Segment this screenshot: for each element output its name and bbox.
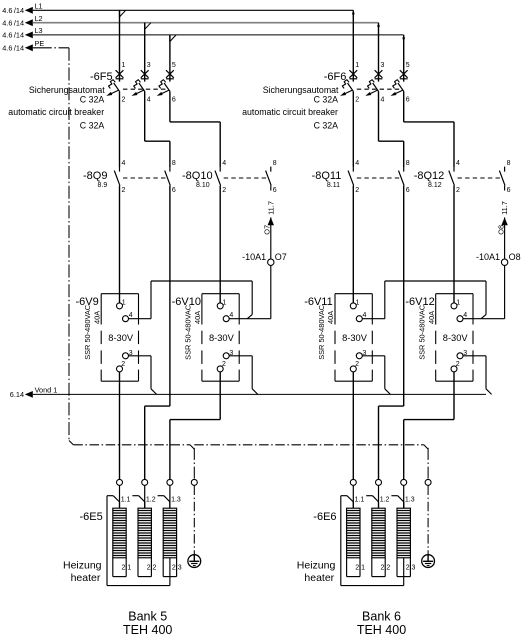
svg-text:8: 8 <box>406 160 410 167</box>
-6V10 pin 2 <box>217 361 226 372</box>
protective earth bus PE (dash-dot) <box>33 48 74 445</box>
svg-text:40A: 40A <box>92 311 101 324</box>
svg-text:4.6 /14: 4.6 /14 <box>2 19 24 28</box>
rotated label O7 <box>263 225 272 235</box>
wire breaker pole1 pin2 down to contact pin4 <box>352 98 354 167</box>
contactor -8Q11 second contact (pins 8-6) <box>399 160 410 194</box>
label -6F6 <box>324 71 347 83</box>
svg-text:2: 2 <box>121 361 125 368</box>
svg-text:-6E6: -6E6 <box>313 511 336 523</box>
heating element resistor 1 (hatched) <box>347 502 360 558</box>
svg-text:O7: O7 <box>275 252 287 262</box>
heating element 1 return legs (U) <box>113 558 126 577</box>
svg-text:C 32A: C 32A <box>314 121 339 131</box>
control common bus Vond 1 <box>33 393 486 395</box>
svg-text:TEH 400: TEH 400 <box>357 623 406 637</box>
cross-reference 8.10 <box>196 182 210 189</box>
wire SSR(right) pin2 down, jog left to heater terminal .3 <box>170 372 220 479</box>
contactor -8Q9 second contact (pins 8-6) <box>165 160 176 194</box>
wire O8 terminal down / left to SSR pin4 <box>463 266 505 319</box>
svg-text:2: 2 <box>456 361 460 368</box>
heater connection terminal 3 <box>167 479 173 485</box>
rotated label 11.7 <box>266 201 275 215</box>
svg-text:O7: O7 <box>263 225 272 235</box>
wire SSR(left) pin3 to control-common bus <box>129 356 157 395</box>
circuit breaker -6F5 pole 2 (pins 3-4) <box>132 23 151 104</box>
svg-text:TEH 400: TEH 400 <box>123 623 172 637</box>
-6V11 pin 3 <box>356 350 366 359</box>
svg-text:8: 8 <box>507 160 511 167</box>
wire SSR(left) pin2 down to heater terminal .1 <box>119 372 121 479</box>
wire contact pin2 down to SSR pin1 (phase L3 path) <box>453 186 455 303</box>
svg-text:4.6 /14: 4.6 /14 <box>2 44 24 53</box>
-6V11 pin 1 <box>350 300 359 309</box>
svg-text:8.12: 8.12 <box>428 182 442 189</box>
svg-text:-8Q11: -8Q11 <box>312 170 342 182</box>
svg-text:Bank 6: Bank 6 <box>362 610 401 624</box>
circuit breaker -6F6 pole 3 (pins 5-6) <box>391 35 410 104</box>
svg-text:8.9: 8.9 <box>98 182 108 189</box>
svg-text:6: 6 <box>406 187 410 194</box>
wire terminal down into heating element <box>119 486 121 509</box>
svg-text:SSR 50-480VAC: SSR 50-480VAC <box>184 304 193 360</box>
label -8Q9 <box>83 170 107 182</box>
PE wire terminal down to earth symbol (dash-dot) <box>427 486 429 555</box>
net label Vond 1 <box>35 386 58 395</box>
svg-text:Sicherungsautomat: Sicherungsautomat <box>29 85 105 95</box>
label Sicherungsautomat <box>263 85 339 95</box>
net label PE <box>35 39 45 48</box>
-6V9 pin 3 <box>123 350 133 359</box>
svg-text:Sicherungsautomat: Sicherungsautomat <box>263 85 339 95</box>
svg-text:-6E5: -6E5 <box>80 511 103 523</box>
power bus L1 <box>33 9 354 11</box>
svg-text:1: 1 <box>122 300 126 307</box>
-6V12 pin 3 <box>457 350 467 359</box>
svg-text:8: 8 <box>273 160 277 167</box>
cross-reference 8.12 <box>428 182 442 189</box>
svg-text:4: 4 <box>129 312 133 319</box>
device terminal circle -10A1 O7 <box>268 259 274 265</box>
label -8Q11 <box>312 170 342 182</box>
svg-text:1.1: 1.1 <box>121 497 131 504</box>
sheet cross-reference arrow 11.7 (up) on O7 line <box>268 217 274 225</box>
label heater <box>71 572 101 584</box>
-6V12 pin 2 <box>451 361 460 372</box>
svg-text:40A: 40A <box>427 311 436 324</box>
svg-text:1.2: 1.2 <box>146 497 156 504</box>
label Sicherungsautomat <box>29 85 105 95</box>
heater bank -6E6 enclosure outline <box>341 496 404 586</box>
terminal label 2.2 <box>147 565 157 572</box>
svg-text:2: 2 <box>222 361 226 368</box>
svg-text:6: 6 <box>172 96 176 103</box>
label Bank 5 <box>128 610 167 624</box>
solid state relay -6V12 (box) <box>436 294 473 382</box>
heating element 3 return legs (U) <box>397 558 410 577</box>
svg-text:6: 6 <box>172 187 176 194</box>
heater connection terminal 2 <box>376 479 382 485</box>
heating element 1 terminal label 1.1 <box>121 497 131 504</box>
svg-text:C 32A: C 32A <box>80 121 105 131</box>
control voltage label 8-30V <box>342 333 368 343</box>
svg-text:SSR 50-480VAC: SSR 50-480VAC <box>83 304 92 360</box>
value label C 32A <box>314 121 339 131</box>
svg-text:40A: 40A <box>326 311 335 324</box>
svg-text:4: 4 <box>147 96 151 103</box>
-6V12 pin 4 <box>457 312 467 322</box>
protective earth symbol (circled ground) <box>422 555 435 568</box>
sheet cross-reference arrow 11.7 (up) on O8 line <box>501 217 507 225</box>
label automatic circuit breaker <box>8 107 104 117</box>
svg-text:6.14: 6.14 <box>10 390 24 399</box>
mechanical link -6F5 (dashed) <box>123 88 168 90</box>
label -8Q10 <box>182 170 213 182</box>
label -10A1 <box>242 252 266 262</box>
wire terminal down into heating element <box>352 486 354 509</box>
wire terminal down into heating element <box>403 486 405 509</box>
label O7 <box>275 252 287 262</box>
svg-text:4: 4 <box>463 312 467 319</box>
circuit breaker -6F5 pole 3 (pins 5-6) <box>157 35 176 104</box>
solid state relay -6V9 (box) <box>101 294 138 382</box>
mechanical link -8Q9 (dashed) <box>123 177 168 179</box>
label Heizung <box>63 560 102 572</box>
label -6F5 <box>90 71 113 83</box>
svg-text:PE: PE <box>35 39 45 48</box>
circuit breaker -6F5 pole 1 (pins 1-2) <box>106 10 125 103</box>
svg-text:2.2: 2.2 <box>381 565 391 572</box>
label O8 <box>509 252 521 262</box>
mechanical link -8Q11 (dashed) <box>357 177 402 179</box>
contactor -8Q10 main contact (pins 4-2) <box>215 160 226 194</box>
contactor -8Q11 main contact (pins 4-2) <box>348 160 359 194</box>
label -8Q12 <box>414 170 445 182</box>
net label L2 <box>35 14 43 23</box>
rotated label 11.7 <box>500 201 509 215</box>
wire contact pin2 down to SSR pin1 (phase L3 path) <box>219 186 221 303</box>
-6V10 pin 1 <box>217 300 226 309</box>
svg-text:2: 2 <box>355 96 359 103</box>
mechanical link -8Q12 (dashed) <box>458 177 504 179</box>
control voltage label 8-30V <box>209 333 235 343</box>
svg-text:1.1: 1.1 <box>355 497 365 504</box>
rotated label SSR 50-480VAC <box>184 304 193 360</box>
svg-text:5: 5 <box>406 62 410 69</box>
svg-text:-8Q10: -8Q10 <box>182 170 213 182</box>
heater bank -6E5 enclosure outline <box>107 496 170 586</box>
label -6E6 <box>313 511 336 523</box>
svg-text:4.6 /14: 4.6 /14 <box>2 31 24 40</box>
PE bottom distribution bus (dash-dot) <box>73 445 428 449</box>
svg-text:L2: L2 <box>35 14 43 23</box>
-6V9 pin 2 <box>117 361 126 372</box>
terminal label 2.1 <box>355 565 365 572</box>
rotated label O8 <box>496 225 505 235</box>
rotated label SSR 50-480VAC <box>317 304 326 360</box>
wire breaker pole3 pin6 jog to second contactor pin4 <box>170 98 220 167</box>
svg-text:2: 2 <box>355 187 359 194</box>
wire SSR(right) pin3 to control-common bus <box>463 356 492 395</box>
terminal label 2.1 <box>122 565 132 572</box>
PE wire terminal down to earth symbol (dash-dot) <box>193 486 195 555</box>
label -6V12 <box>405 296 434 308</box>
svg-text:2.2: 2.2 <box>147 565 157 572</box>
svg-text:L3: L3 <box>35 26 43 35</box>
svg-text:-8Q9: -8Q9 <box>83 170 107 182</box>
source arrow PE (from 4.6/14) <box>2 44 33 53</box>
rotated label 40A <box>193 311 202 324</box>
wire breaker pole1 pin2 down to contact pin4 <box>119 98 121 167</box>
svg-text:8.10: 8.10 <box>196 182 210 189</box>
heater connection terminal 4 <box>191 479 197 485</box>
net label L3 <box>35 26 43 35</box>
heating element 1 terminal label 1.1 <box>355 497 365 504</box>
svg-text:-10A1: -10A1 <box>476 252 500 262</box>
svg-text:6: 6 <box>507 187 511 194</box>
net label L1 <box>35 2 43 11</box>
svg-text:Heizung: Heizung <box>297 560 336 572</box>
heating element 2 terminal label 1.2 <box>146 497 156 504</box>
heater connection terminal 4 <box>425 479 431 485</box>
label -10A1 <box>476 252 500 262</box>
svg-text:4: 4 <box>355 160 359 167</box>
-6V11 pin 2 <box>350 361 359 372</box>
label -6V11 <box>304 296 333 308</box>
wire SSR(right) pin3 to control-common bus <box>229 356 258 395</box>
svg-text:2.1: 2.1 <box>122 565 132 572</box>
heating element resistor 1 (hatched) <box>113 502 126 558</box>
svg-text:5: 5 <box>172 62 176 69</box>
PE drop to heater earth terminal (dash-dot) <box>193 448 195 479</box>
control voltage label 8-30V <box>108 333 134 343</box>
power bus L3 <box>33 34 404 36</box>
-6V9 pin 4 <box>123 312 133 322</box>
wire breaker pole3 pin6 jog to second contactor pin4 <box>404 98 454 167</box>
svg-text:3: 3 <box>381 62 385 69</box>
-6V11 pin 4 <box>356 312 366 322</box>
mechanical link -6F6 (dashed) <box>357 88 402 90</box>
label TEH 400 <box>123 623 172 637</box>
label automatic circuit breaker <box>242 107 338 117</box>
label Heizung <box>297 560 336 572</box>
svg-text:4.6 /14: 4.6 /14 <box>2 6 24 15</box>
-6V10 pin 4 <box>223 312 233 322</box>
svg-text:1: 1 <box>122 62 126 69</box>
heater connection terminal 1 <box>117 479 123 485</box>
svg-text:8-30V: 8-30V <box>209 333 235 343</box>
svg-text:automatic circuit breaker: automatic circuit breaker <box>242 107 338 117</box>
svg-text:2: 2 <box>456 187 460 194</box>
svg-text:-6F6: -6F6 <box>324 71 347 83</box>
wire terminal down into heating element <box>169 486 171 509</box>
label TEH 400 <box>357 623 406 637</box>
heater connection terminal 2 <box>142 479 148 485</box>
svg-text:C 32A: C 32A <box>80 95 105 105</box>
heating element resistor 3 (hatched) <box>397 502 410 558</box>
svg-text:40A: 40A <box>193 311 202 324</box>
heater connection terminal 1 <box>350 479 356 485</box>
svg-text:4: 4 <box>222 160 226 167</box>
circuit breaker -6F6 pole 1 (pins 1-2) <box>340 10 359 103</box>
contactor -8Q12 main contact (pins 4-2) <box>449 160 460 194</box>
svg-text:-8Q12: -8Q12 <box>414 170 445 182</box>
wire aux contact pin6 down to terminal O8 (gap at 11.7 label) <box>504 186 506 259</box>
heating element resistor 3 (hatched) <box>163 502 176 558</box>
svg-text:8-30V: 8-30V <box>342 333 368 343</box>
svg-text:C 32A: C 32A <box>314 95 339 105</box>
value label C 32A <box>314 95 339 105</box>
terminal label 2.3 <box>172 565 182 572</box>
terminal label 2.2 <box>381 565 391 572</box>
svg-text:4: 4 <box>456 160 460 167</box>
mechanical link -8Q10 (dashed) <box>224 177 270 179</box>
svg-text:automatic circuit breaker: automatic circuit breaker <box>8 107 104 117</box>
heating element 3 terminal label 1.3 <box>405 497 415 504</box>
heating element resistor 2 (hatched) <box>372 502 385 558</box>
contactor -8Q9 main contact (pins 4-2) <box>114 160 125 194</box>
rotated label 40A <box>92 311 101 324</box>
svg-text:6: 6 <box>406 96 410 103</box>
svg-text:1.2: 1.2 <box>380 497 390 504</box>
svg-text:2: 2 <box>355 361 359 368</box>
heating element 3 terminal label 1.3 <box>171 497 181 504</box>
svg-text:8-30V: 8-30V <box>443 333 469 343</box>
svg-text:6: 6 <box>273 187 277 194</box>
svg-text:1.3: 1.3 <box>405 497 415 504</box>
solid state relay -6V11 (box) <box>335 294 372 382</box>
svg-text:2.3: 2.3 <box>406 565 416 572</box>
svg-text:2: 2 <box>122 96 126 103</box>
wire terminal down into heating element <box>378 486 380 509</box>
terminal label 2.3 <box>406 565 416 572</box>
svg-text:8.11: 8.11 <box>327 182 340 189</box>
svg-text:3: 3 <box>147 62 151 69</box>
heating element 1 return legs (U) <box>347 558 360 577</box>
wire SSR(left) pin3 to control-common bus <box>362 356 390 395</box>
-6V12 pin 1 <box>451 300 460 309</box>
cross-reference 8.11 <box>327 182 340 189</box>
wire SSR(right) pin2 down, jog left to heater terminal .3 <box>404 372 454 479</box>
svg-text:O8: O8 <box>509 252 521 262</box>
svg-text:1: 1 <box>356 300 360 307</box>
wire aux contact pin6 down to terminal O7 (gap at 11.7 label) <box>270 186 272 259</box>
svg-text:O8: O8 <box>496 225 505 235</box>
contactor -8Q12 aux contact (pins 8-6, pin 8 stub) <box>499 160 510 194</box>
wire breaker pole2 pin4 jog to aux contact pin8 <box>145 98 170 167</box>
svg-text:4: 4 <box>122 160 126 167</box>
svg-text:heater: heater <box>71 572 101 584</box>
svg-text:SSR 50-480VAC: SSR 50-480VAC <box>418 304 427 360</box>
heating element 2 terminal label 1.2 <box>380 497 390 504</box>
svg-text:11.7: 11.7 <box>500 201 509 215</box>
control voltage label 8-30V <box>443 333 469 343</box>
wire contact pin2 down to SSR pin1 (phase L1 path) <box>352 186 354 303</box>
svg-text:Heizung: Heizung <box>63 560 102 572</box>
heating element 2 return legs (U) <box>372 558 385 577</box>
svg-text:SSR 50-480VAC: SSR 50-480VAC <box>317 304 326 360</box>
heater connection terminal 3 <box>401 479 407 485</box>
svg-text:L1: L1 <box>35 2 43 11</box>
svg-text:1: 1 <box>456 300 460 307</box>
svg-text:2: 2 <box>122 187 126 194</box>
svg-text:Bank 5: Bank 5 <box>128 610 167 624</box>
wire SSR(left) pin2 down to heater terminal .1 <box>352 372 354 479</box>
svg-text:1: 1 <box>355 62 359 69</box>
-6V10 pin 3 <box>223 350 233 359</box>
svg-text:2.1: 2.1 <box>355 565 365 572</box>
rotated label 40A <box>427 311 436 324</box>
svg-text:-6F5: -6F5 <box>90 71 113 83</box>
control branch: diagonal + vertical + horizontal to first SSR pin4 <box>129 281 253 319</box>
wire O7 terminal down / left to SSR pin4 <box>229 266 271 319</box>
label -6V10 <box>172 296 201 308</box>
label heater <box>304 572 334 584</box>
circuit breaker -6F6 pole 2 (pins 3-4) <box>365 23 384 104</box>
source arrow Vond 1 (to 6.14) <box>10 390 33 399</box>
wire terminal down into heating element <box>144 486 146 509</box>
value label C 32A <box>80 95 105 105</box>
heating element 2 return legs (U) <box>138 558 151 577</box>
device terminal circle -10A1 O8 <box>501 259 507 265</box>
label Bank 6 <box>362 610 401 624</box>
value label C 32A <box>80 121 105 131</box>
svg-text:1.3: 1.3 <box>171 497 181 504</box>
rotated label SSR 50-480VAC <box>83 304 92 360</box>
cross-reference 8.9 <box>98 182 108 189</box>
contactor -8Q10 aux contact (pins 8-6, pin 8 stub) <box>266 160 277 194</box>
-6V9 pin 1 <box>117 300 126 309</box>
svg-text:8: 8 <box>172 160 176 167</box>
source arrow L3 (from 4.6/14) <box>2 31 33 40</box>
heating element 3 return legs (U) <box>163 558 176 577</box>
svg-text:2.3: 2.3 <box>172 565 182 572</box>
wire L2 net: aux contact pin6 down, jog left to heater terminal .2 <box>145 186 170 480</box>
control branch: diagonal + vertical + horizontal to first SSR pin4 <box>362 281 486 319</box>
label -6E5 <box>80 511 103 523</box>
svg-text:Vond 1: Vond 1 <box>35 386 58 395</box>
rotated label SSR 50-480VAC <box>418 304 427 360</box>
label -6V9 <box>76 296 99 308</box>
solid state relay -6V10 (box) <box>202 294 239 382</box>
svg-text:11.7: 11.7 <box>266 201 275 215</box>
wire L2 net: aux contact pin6 down, jog left to heater terminal .2 <box>379 186 404 480</box>
svg-text:-10A1: -10A1 <box>242 252 266 262</box>
rotated label 40A <box>326 311 335 324</box>
svg-text:8-30V: 8-30V <box>108 333 134 343</box>
svg-text:heater: heater <box>304 572 334 584</box>
svg-text:4: 4 <box>363 312 367 319</box>
svg-text:4: 4 <box>381 96 385 103</box>
heating element resistor 2 (hatched) <box>138 502 151 558</box>
protective earth symbol (circled ground) <box>188 555 201 568</box>
PE drop to heater earth terminal (dash-dot) <box>427 448 429 479</box>
source arrow L1 (from 4.6/14) <box>2 6 33 15</box>
svg-text:1: 1 <box>222 300 226 307</box>
source arrow L2 (from 4.6/14) <box>2 19 33 28</box>
wire contact pin2 down to SSR pin1 (phase L1 path) <box>119 186 121 303</box>
wire breaker pole2 pin4 jog to aux contact pin8 <box>379 98 404 167</box>
svg-text:2: 2 <box>222 187 226 194</box>
svg-text:4: 4 <box>229 312 233 319</box>
power bus L2 <box>33 22 379 24</box>
